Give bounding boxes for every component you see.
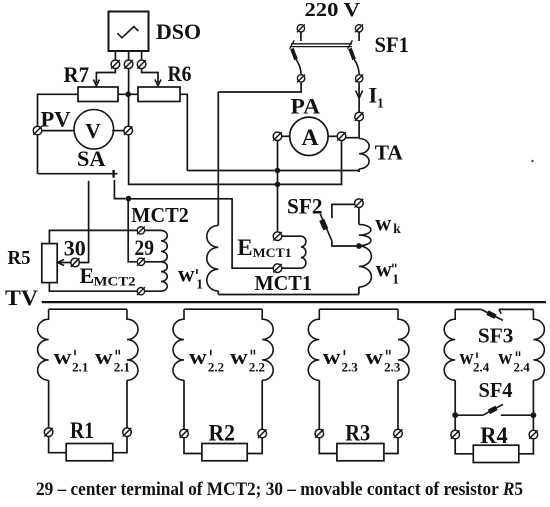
resistor R2	[202, 444, 247, 461]
winding w2.4'	[444, 309, 455, 380]
svg-text:2.4: 2.4	[514, 359, 531, 374]
svg-text:w: w	[365, 344, 383, 369]
svg-text:w: w	[498, 344, 512, 369]
terminal group2 right	[258, 429, 267, 438]
voltmeter PV	[74, 110, 114, 150]
wire R7 left down to SA	[38, 94, 79, 173]
core line TV	[42, 301, 546, 303]
wire SF1 right down to TA	[358, 83, 360, 139]
terminal group3 left	[315, 429, 324, 438]
wire group1 left to R1	[49, 436, 67, 452]
DSO terminal right	[137, 60, 146, 69]
DSO terminal left	[111, 60, 120, 69]
svg-text:R4: R4	[480, 423, 508, 448]
wire R7-R6	[118, 93, 138, 95]
supply terminal right	[355, 24, 363, 32]
SF1 linkage bar	[291, 43, 352, 45]
svg-text:k: k	[393, 221, 401, 236]
wire left branch down (220V feed)	[217, 92, 219, 225]
svg-text:2.3: 2.3	[342, 359, 359, 374]
switch SF2	[332, 204, 355, 218]
ammeter PA	[290, 117, 328, 155]
wire node down to terminal 29	[128, 199, 136, 262]
resistor R1	[66, 444, 113, 461]
wire group1 right down	[126, 380, 128, 428]
svg-text:2.2: 2.2	[208, 359, 224, 374]
svg-text:R2: R2	[209, 421, 236, 446]
svg-text:E: E	[237, 235, 252, 260]
svg-text:A: A	[302, 125, 319, 151]
svg-text:w: w	[376, 256, 392, 281]
svg-text:PA: PA	[291, 93, 321, 118]
wire group4 top with SF3 gap	[455, 308, 481, 310]
junction dot riser/TA wire	[275, 168, 281, 174]
wire group1 right to R1	[113, 436, 127, 452]
svg-text:I: I	[369, 83, 378, 108]
svg-text:30: 30	[64, 236, 86, 261]
wire R5 top to MCT2 top	[49, 230, 137, 243]
svg-text:E: E	[80, 263, 95, 288]
wire PA right to TA line	[346, 137, 359, 139]
svg-text:R3: R3	[345, 421, 370, 446]
resistor R6	[138, 87, 180, 102]
svg-text:2.3: 2.3	[384, 359, 401, 374]
wire R6 right down	[180, 94, 187, 170]
switch SA blade	[38, 173, 118, 175]
wire group3 left down	[318, 380, 320, 429]
switch SF3 blade	[481, 309, 503, 320]
winding w2.2''	[262, 309, 273, 380]
svg-text:220 V: 220 V	[305, 0, 361, 21]
wire PV right stub	[112, 130, 124, 132]
switch SF4 wire	[455, 414, 482, 416]
PA terminal right	[337, 132, 346, 141]
wire group2 left to R2	[184, 438, 202, 454]
svg-text:MCT2: MCT2	[94, 274, 136, 289]
wire group1 left down	[48, 380, 50, 428]
wire group4 left to R4	[455, 439, 473, 454]
svg-text:R6: R6	[168, 61, 192, 86]
wire group2 left down	[183, 380, 185, 429]
wire group1 top	[49, 308, 127, 310]
terminal on I1 wire	[355, 112, 364, 121]
E_MCT1 terminal top	[273, 232, 282, 241]
switch SA tick	[112, 170, 114, 178]
svg-text:1: 1	[196, 276, 203, 291]
winding MCT2	[145, 230, 161, 291]
svg-text:w: w	[460, 344, 474, 369]
wire group2 right to R2	[247, 438, 262, 454]
stray speck	[531, 160, 533, 162]
PA stubs	[282, 135, 290, 137]
MCT2 terminal bottom	[137, 287, 145, 295]
terminal group3 right	[394, 429, 403, 438]
svg-text:2.2: 2.2	[249, 359, 265, 374]
svg-text:DSO: DSO	[156, 19, 201, 44]
svg-text:SF4: SF4	[479, 378, 513, 402]
arrow onto R7	[93, 80, 99, 86]
winding w2.2'	[173, 309, 184, 380]
arrow onto R6	[155, 80, 161, 86]
terminal group2 left	[180, 429, 189, 438]
wire group4 right to R4	[519, 439, 534, 454]
wire group4 left down	[454, 380, 456, 430]
terminal 29	[137, 258, 145, 266]
svg-text:SF1: SF1	[375, 32, 410, 57]
svg-text:R5: R5	[8, 247, 31, 269]
supply terminal left	[297, 24, 305, 32]
wire group3 right to R3	[384, 438, 398, 454]
resistor R7	[78, 87, 118, 102]
svg-text:29: 29	[135, 235, 155, 260]
MCT2 terminal top	[137, 227, 145, 235]
terminal group1 right	[123, 428, 132, 437]
wire wk stub	[358, 208, 360, 225]
wire SA tick to node	[114, 180, 125, 199]
wire group3 top	[319, 308, 398, 310]
wire group3 right down	[397, 380, 399, 429]
terminal group4 right	[529, 430, 538, 439]
wire SA contact down to wiper 30	[80, 181, 89, 263]
svg-text:SA: SA	[77, 146, 106, 171]
junction dot R7/R6	[125, 92, 131, 98]
svg-text:2.4: 2.4	[473, 359, 490, 374]
winding w2.1'	[38, 309, 49, 380]
wire TA bottom row	[187, 170, 359, 172]
SF1 lower terminal right	[355, 75, 363, 83]
wire group3 left to R3	[319, 438, 337, 454]
svg-text:w: w	[54, 344, 72, 369]
SF1 left pole blade	[290, 40, 295, 49]
winding w_k	[359, 225, 371, 246]
svg-text:TA: TA	[375, 140, 403, 164]
svg-text:w: w	[178, 262, 195, 287]
resistor R5	[42, 244, 57, 283]
wire DSO mid down, center line to node, right to PA	[129, 69, 342, 185]
terminal 30	[71, 258, 80, 267]
I1 arrow	[356, 91, 363, 99]
svg-text:MCT1: MCT1	[253, 245, 292, 260]
wire R5 bottom to MCT2 bottom	[49, 283, 137, 292]
DSO terminal mid	[124, 60, 133, 69]
winding w2.3''	[398, 309, 409, 380]
svg-text:TV: TV	[5, 285, 38, 310]
switch SF4 blade	[482, 404, 503, 415]
winding w2.3'	[308, 309, 319, 380]
svg-text:PV: PV	[41, 107, 71, 132]
svg-text:MCT2: MCT2	[131, 203, 189, 227]
winding E_MCT1	[282, 236, 301, 268]
junction dot riser/center wire	[275, 182, 281, 188]
wire PV left stub	[42, 130, 74, 132]
svg-text:w: w	[95, 344, 113, 369]
wire MCT1 bottom	[218, 294, 359, 296]
SF1 lower terminal left	[297, 75, 305, 83]
winding w1''	[359, 246, 371, 287]
junction node	[126, 196, 132, 202]
resistor R3	[337, 444, 384, 461]
svg-text:V: V	[85, 119, 101, 143]
SF1 stubs	[300, 32, 302, 41]
svg-text:w: w	[230, 344, 248, 369]
svg-text:29 – center terminal of MCT2;: 29 – center terminal of MCT2; 30 – movab…	[36, 479, 523, 500]
wire DSO left probe to R7 wiper	[96, 69, 115, 83]
wire node to E_MCT1 bottom	[129, 199, 274, 268]
terminal w_k top	[355, 199, 364, 208]
winding w2.4''	[533, 309, 544, 380]
svg-text:MCT1: MCT1	[255, 271, 313, 295]
winding TA	[359, 139, 369, 169]
svg-text:w: w	[189, 344, 207, 369]
wire group4 right down	[532, 380, 534, 430]
svg-text:SF2: SF2	[287, 193, 323, 218]
wiper arrow into R5	[59, 262, 71, 264]
svg-text:R7: R7	[64, 62, 90, 87]
junction dot SF4 left	[452, 412, 458, 418]
svg-text:R1: R1	[70, 418, 94, 443]
svg-text:1: 1	[392, 271, 399, 286]
SF1 right pole blade	[348, 40, 353, 49]
svg-text:2.1: 2.1	[114, 359, 130, 374]
junction dot SF4 right	[531, 412, 537, 418]
terminal group1 left	[44, 428, 53, 437]
terminal group4 left	[451, 430, 460, 439]
PV terminal right	[124, 126, 133, 135]
winding w2.1''	[127, 309, 138, 380]
riser PA left to E_MCT1 top	[277, 141, 279, 232]
wire group2 top	[184, 308, 262, 310]
wire DSO right probe to R6 wiper	[142, 69, 158, 83]
DSO pin stems	[114, 51, 116, 60]
wire SF1 left to left branch	[218, 83, 301, 92]
svg-text:w: w	[323, 344, 341, 369]
E_MCT1 terminal bottom	[273, 264, 282, 273]
winding w1'	[207, 225, 219, 291]
PV terminal left	[33, 126, 42, 135]
PA terminal left	[273, 132, 282, 141]
junction dot wk/w1''	[356, 243, 362, 249]
svg-text:w: w	[375, 210, 391, 235]
wire group2 right down	[261, 380, 263, 429]
svg-text:2.1: 2.1	[72, 359, 88, 374]
resistor R4	[473, 445, 519, 462]
DSO waveform glyph	[117, 27, 138, 38]
oscilloscope DSO box	[109, 12, 149, 52]
svg-text:1: 1	[377, 96, 384, 111]
